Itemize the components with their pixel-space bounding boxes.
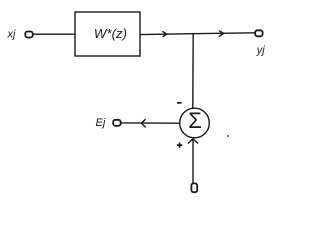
output terminal Ej <box>113 120 120 126</box>
wire desired input to summer <box>192 139 194 184</box>
arrowhead on wire to yj <box>219 31 224 37</box>
wire junction to yj terminal <box>193 32 255 35</box>
input terminal xj <box>25 32 32 38</box>
wire summer to Ej terminal <box>121 122 180 124</box>
arrowhead into summer bottom <box>188 139 198 144</box>
wire W*(z) to junction <box>140 33 193 36</box>
filter block W*(z) <box>75 12 140 56</box>
svg-text:W*(z): W*(z) <box>94 26 127 41</box>
summer U1 sigma <box>180 108 210 138</box>
output terminal yj <box>255 30 262 36</box>
arrowhead on wire to Ej <box>141 119 145 127</box>
stray dot <box>227 135 229 137</box>
svg-text:Ej: Ej <box>96 117 106 129</box>
arrowhead on wire to junction <box>162 31 166 37</box>
wire xj to W*(z) <box>33 33 75 35</box>
svg-text:yj: yj <box>256 44 266 56</box>
plus sign <box>177 143 182 148</box>
svg-text:Σ: Σ <box>188 108 202 133</box>
wire junction down to summer <box>192 34 194 109</box>
svg-text:xj: xj <box>7 28 17 40</box>
minus sign <box>177 102 182 104</box>
input terminal dj <box>191 183 197 192</box>
